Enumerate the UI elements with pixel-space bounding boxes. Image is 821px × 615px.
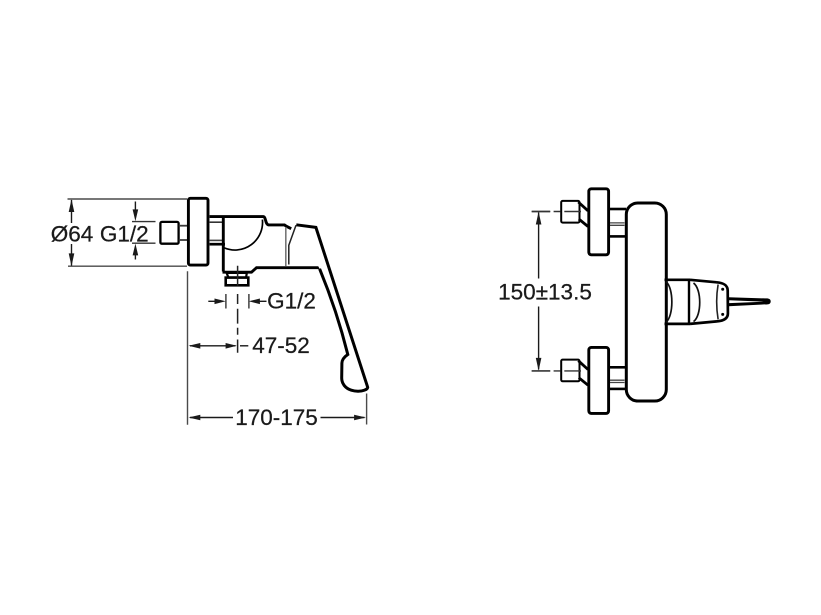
hub seam arc (717, 285, 718, 320)
dim 150 upper shaft (538, 213, 540, 279)
hub pin top (721, 288, 724, 291)
nipple thread line upper (210, 221, 223, 223)
body/cap separation line (285, 227, 287, 266)
G1/2 outlet leader right (253, 300, 267, 302)
svg-text:Ø64: Ø64 (51, 221, 94, 246)
arrow left 47-52 (189, 343, 201, 349)
top nipple bottom edge (610, 235, 626, 238)
lever blade (729, 297, 771, 306)
top nipple top edge (610, 208, 626, 211)
G1/2 inlet tick bottom (132, 242, 156, 244)
body (626, 203, 666, 401)
section 2 top edge (690, 280, 717, 283)
dim line 170-175 right (321, 417, 365, 419)
bottom nipple top edge (610, 366, 626, 369)
top cone lower (579, 219, 588, 227)
G1/2 outlet arrow right (249, 299, 260, 305)
dim line D64 upper shaft (71, 200, 73, 223)
cartridge section 1 bottom edge (665, 323, 691, 326)
bottom union nut (561, 360, 579, 382)
hub pin bottom (721, 313, 724, 316)
cartridge section 1 top edge (665, 278, 691, 281)
top centerline (532, 211, 581, 213)
extension line top (D64) (68, 198, 188, 200)
dim line 47-52 (190, 345, 236, 347)
hub end (717, 282, 728, 321)
section 2 arc (694, 283, 700, 322)
svg-text:150±13.5: 150±13.5 (498, 280, 592, 305)
inlet thread stub upper (179, 225, 187, 227)
body bottom edge left (223, 268, 321, 273)
cap left edge (289, 225, 296, 264)
inlet union nut (160, 222, 178, 244)
inlet thread stub lower (179, 239, 187, 241)
G1/2 outlet tick right (248, 294, 250, 309)
arrow down 150 (536, 358, 542, 371)
body top edge with step (210, 217, 292, 229)
lever handle (296, 225, 367, 391)
body interior arc (224, 220, 262, 250)
section 2 bottom edge (690, 321, 717, 324)
wall extension line long (187, 271, 189, 425)
bottom flange (589, 347, 609, 413)
nipple bottom edge (210, 243, 225, 246)
G1/2 inlet arrow top head (133, 209, 139, 221)
bottom nipple bottom edge (610, 388, 626, 391)
arrow left 170-175 (189, 415, 201, 421)
outlet spout band (227, 273, 247, 278)
arrow right 170-175 (354, 415, 366, 421)
dim 150 tick bottom (532, 370, 551, 372)
cartridge dome arc (666, 282, 672, 323)
G1/2 outlet tick left (225, 294, 227, 309)
svg-text:170-175: 170-175 (235, 405, 318, 430)
extension line bottom (D64) (68, 265, 187, 267)
arrow right 47-52 (226, 343, 237, 349)
G1/2 outlet leader left (208, 300, 222, 302)
G1/2 inlet arrow bottom head (133, 244, 139, 256)
bottom nipple thread lines (610, 380, 625, 382)
G1/2 inlet tick top (132, 221, 156, 223)
cartridge divider line (688, 279, 690, 325)
stub 47-52 (240, 345, 248, 347)
arrow down D64 (69, 253, 75, 266)
dim 150 lower shaft (538, 307, 540, 370)
arrow up D64 (69, 199, 75, 212)
top cone upper (578, 202, 588, 211)
lever blade slit (729, 300, 764, 303)
bottom cone lower (579, 378, 588, 386)
top flange (589, 189, 609, 255)
svg-text:G1/2: G1/2 (267, 289, 316, 314)
outlet centerline (237, 266, 239, 353)
nipple thread line lower (210, 239, 223, 241)
top union nut (561, 201, 579, 223)
outlet nut (226, 278, 249, 286)
dim 150 tick top (532, 211, 551, 213)
arrow up 150 (536, 212, 542, 225)
G1/2 inlet arrow top shaft (134, 202, 136, 215)
bottom cone upper (578, 361, 588, 370)
dim line D64 lower shaft (71, 244, 73, 266)
svg-text:47-52: 47-52 (252, 333, 310, 358)
handle tip extension line (366, 394, 368, 425)
top nipple thread lines (610, 223, 625, 225)
body left edge (222, 216, 225, 272)
G1/2 outlet arrow left (215, 299, 226, 305)
bottom centerline (532, 370, 581, 372)
dim line 170-175 left (190, 417, 233, 419)
G1/2 inlet arrow bottom shaft (134, 251, 136, 260)
wall flange (188, 198, 208, 265)
